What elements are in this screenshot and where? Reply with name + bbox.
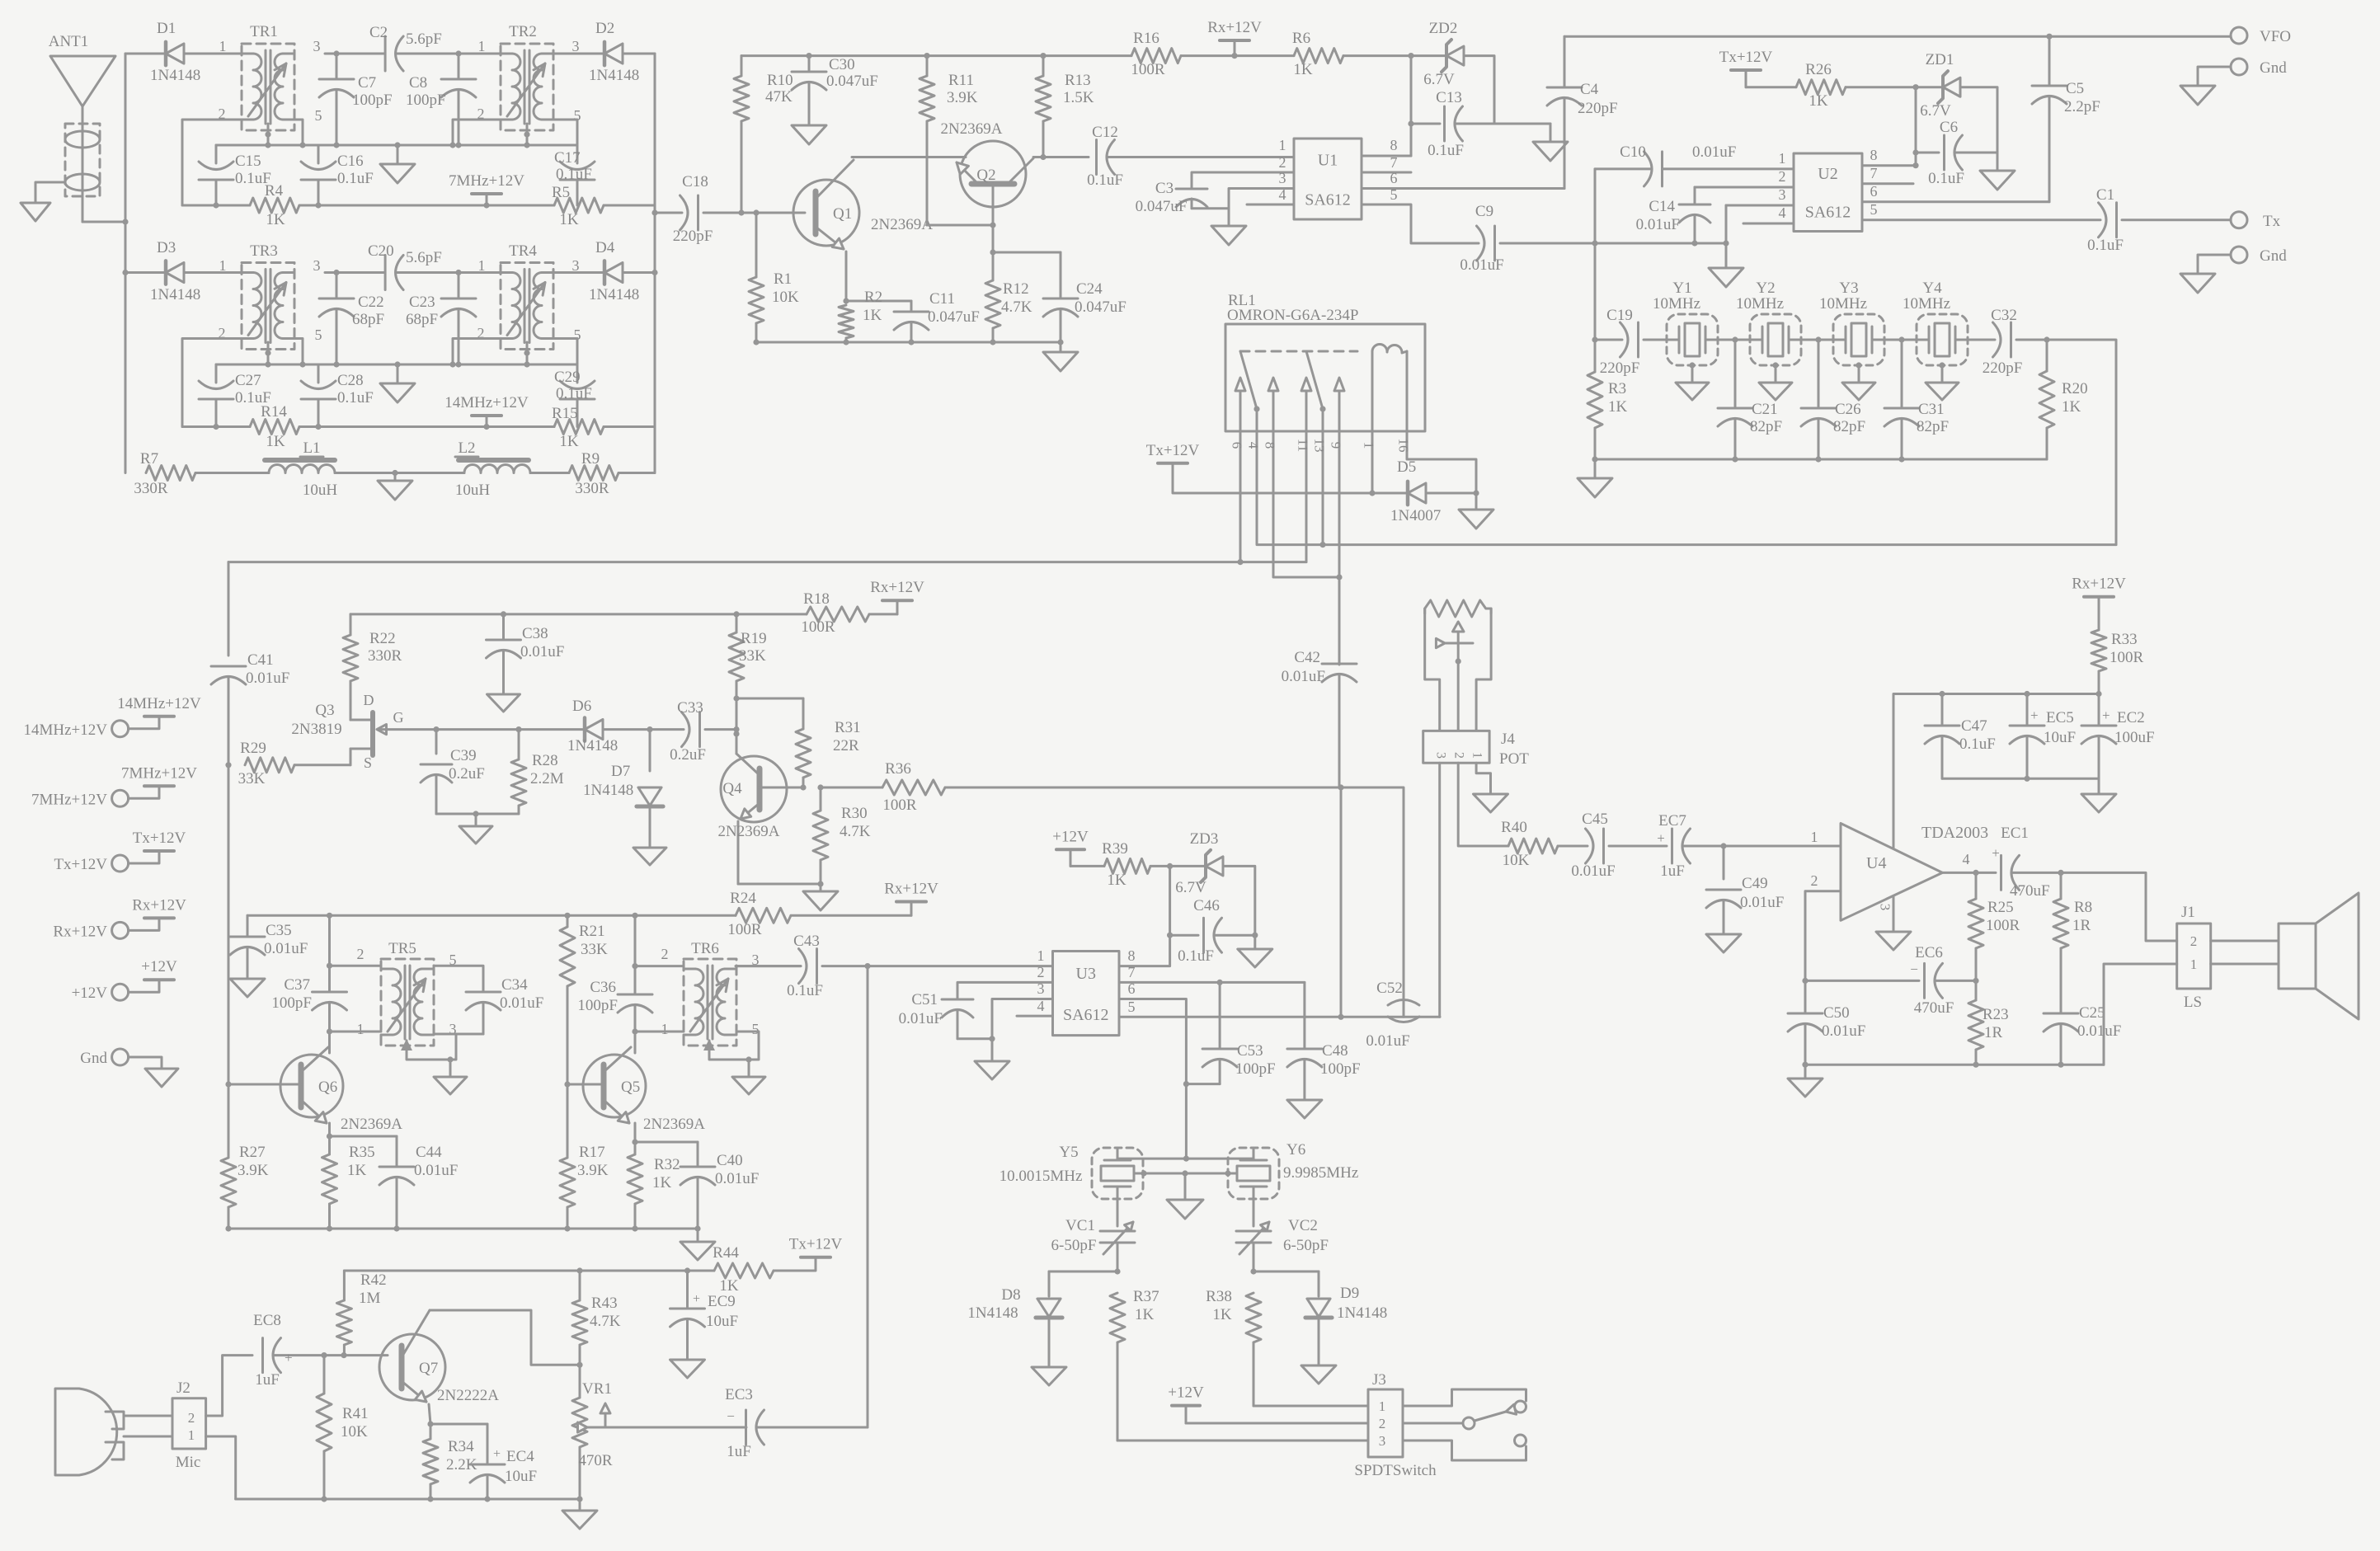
- wire Q3 rail2: [504, 611, 740, 617]
- wire U2 pin1: [1779, 150, 1794, 169]
- capacitor C14: [1636, 187, 1710, 243]
- wire bias rail: [741, 53, 1131, 59]
- ground (C39): [459, 814, 492, 844]
- svg-text:4.7K: 4.7K: [840, 823, 871, 840]
- svg-text:1uF: 1uF: [727, 1443, 751, 1460]
- wire J3 pin3 out: [1403, 1441, 1519, 1460]
- ground (filter2): [380, 364, 415, 402]
- svg-text:1N4148: 1N4148: [583, 782, 633, 799]
- svg-text:R20: R20: [2062, 380, 2088, 397]
- wire U3 pin4: [1017, 998, 1053, 1016]
- svg-text:R31: R31: [835, 719, 861, 736]
- svg-text:C1: C1: [2096, 186, 2114, 204]
- resistor R4: [182, 182, 318, 228]
- capacitor EC4: [470, 1424, 537, 1499]
- svg-text:C23: C23: [409, 294, 435, 311]
- svg-text:ZD1: ZD1: [1926, 51, 1954, 68]
- opamp U4 (TDA2003): [1811, 824, 1989, 921]
- ground (R3): [1578, 459, 1612, 497]
- svg-text:3.9K: 3.9K: [577, 1162, 609, 1179]
- capacitor C27: [199, 364, 271, 430]
- wire TR2 pin2: [449, 120, 501, 148]
- svg-text:Q7: Q7: [419, 1360, 438, 1377]
- svg-text:1K: 1K: [1135, 1306, 1155, 1323]
- wire U2 pin7: [1862, 165, 1913, 184]
- wire U3 pin6: [1119, 980, 1189, 1162]
- svg-text:R26: R26: [1805, 61, 1832, 78]
- wire D1 to TR1: [184, 53, 252, 55]
- coax to ANT1: [65, 124, 100, 196]
- wire R9 to bus2: [619, 472, 655, 474]
- svg-text:R43: R43: [591, 1295, 618, 1312]
- svg-text:R18: R18: [803, 590, 830, 608]
- ground (C48): [1287, 1100, 1322, 1118]
- zener ZD3: [1175, 830, 1223, 896]
- svg-text:6.7V: 6.7V: [1423, 71, 1455, 88]
- svg-text:D2: D2: [595, 20, 614, 37]
- svg-text:S: S: [364, 754, 372, 771]
- transistor Q6: [280, 1047, 402, 1133]
- capacitor C20: [325, 242, 459, 290]
- svg-text:U1: U1: [1318, 151, 1338, 169]
- svg-text:R9: R9: [581, 450, 600, 468]
- wire filter2 botrail: [318, 425, 554, 428]
- svg-text:OMRON-G6A-234P: OMRON-G6A-234P: [1227, 307, 1358, 324]
- svg-text:Q1: Q1: [833, 205, 852, 223]
- wire TR5 pin5: [434, 966, 483, 992]
- svg-text:1: 1: [1279, 137, 1286, 153]
- capacitor EC2: [2081, 694, 2155, 779]
- svg-text:1: 1: [219, 257, 227, 274]
- svg-text:R23: R23: [1983, 1006, 2009, 1023]
- resistor R23: [1968, 980, 2009, 1067]
- svg-text:220pF: 220pF: [1578, 100, 1618, 117]
- svg-text:Rx+12V: Rx+12V: [1207, 19, 1262, 36]
- wire J4 pin1 gnd: [1476, 763, 1490, 794]
- diode D5: [1372, 458, 1479, 524]
- wire U3 pin3: [992, 980, 1053, 1061]
- svg-text:3.9K: 3.9K: [238, 1162, 269, 1179]
- svg-text:2N3819: 2N3819: [291, 721, 341, 738]
- resistor R6: [1292, 30, 1343, 78]
- capacitor C37: [271, 966, 346, 1034]
- capacitor EC7: [1657, 812, 1724, 880]
- wire U4 out: [1942, 870, 1996, 876]
- svg-text:R5: R5: [552, 184, 570, 201]
- svg-text:0.1uF: 0.1uF: [1959, 736, 1996, 753]
- svg-text:1K: 1K: [1293, 61, 1313, 78]
- svg-text:8: 8: [1870, 147, 1878, 163]
- resistor R13: [1036, 56, 1094, 157]
- svg-text:J1: J1: [2181, 904, 2195, 921]
- svg-text:0.1uF: 0.1uF: [1428, 142, 1464, 159]
- wire audio botrail: [236, 1496, 583, 1502]
- svg-text:0.01uF: 0.01uF: [899, 1010, 943, 1027]
- terminal 7MHz+12V: [31, 764, 197, 808]
- svg-text:2.2pF: 2.2pF: [2064, 98, 2100, 115]
- terminal +12V: [72, 958, 177, 1002]
- wire R5 right: [604, 204, 655, 207]
- svg-text:1N4148: 1N4148: [150, 67, 200, 84]
- svg-text:0.01uF: 0.01uF: [715, 1170, 759, 1187]
- svg-text:D: D: [364, 692, 374, 708]
- svg-text:C43: C43: [793, 933, 820, 950]
- svg-text:R7: R7: [140, 450, 158, 468]
- resistor R29: [238, 740, 350, 787]
- svg-text:9: 9: [1329, 442, 1344, 449]
- resistor R34: [423, 1424, 477, 1499]
- antenna ANT1: [49, 33, 115, 222]
- svg-text:100pF: 100pF: [1235, 1060, 1276, 1078]
- svg-text:+: +: [1657, 830, 1665, 846]
- wire J4 pin3: [1438, 763, 1441, 1017]
- capacitor C24: [993, 252, 1127, 345]
- wire RL1 pin8: [1263, 391, 1343, 580]
- power +12V (J3): [1168, 1384, 1368, 1423]
- svg-text:100R: 100R: [727, 921, 762, 938]
- svg-text:100pF: 100pF: [352, 92, 393, 109]
- svg-text:TR4: TR4: [509, 242, 537, 260]
- capacitor C43: [736, 933, 1052, 999]
- svg-text:C37: C37: [284, 976, 310, 994]
- svg-text:Tx+12V: Tx+12V: [1146, 442, 1200, 459]
- svg-text:1K: 1K: [1107, 872, 1127, 889]
- ground (C13): [1533, 124, 1568, 161]
- capacitor C52: [1366, 980, 1419, 1050]
- svg-text:33K: 33K: [581, 941, 608, 958]
- wire R19 to R31: [733, 698, 803, 737]
- svg-text:+: +: [2102, 707, 2110, 723]
- svg-text:D4: D4: [595, 239, 615, 256]
- svg-text:100pF: 100pF: [271, 994, 312, 1012]
- svg-text:2N2369A: 2N2369A: [718, 823, 780, 840]
- svg-text:6: 6: [1390, 170, 1398, 186]
- svg-text:C29: C29: [554, 369, 581, 386]
- svg-text:1: 1: [1037, 947, 1045, 964]
- svg-text:0.1uF: 0.1uF: [1928, 170, 1964, 187]
- capacitor C11: [894, 290, 980, 342]
- svg-text:2N2369A: 2N2369A: [871, 216, 933, 233]
- svg-text:1K: 1K: [2062, 398, 2081, 416]
- svg-text:3: 3: [1037, 980, 1045, 997]
- wire U4 pin2: [1802, 891, 1841, 984]
- svg-text:0.1uF: 0.1uF: [337, 389, 374, 407]
- capacitor C2: [325, 24, 459, 71]
- capacitor EC8: [253, 1312, 346, 1389]
- svg-text:0.01uF: 0.01uF: [500, 994, 543, 1012]
- terminal Rx+12V: [53, 896, 186, 940]
- svg-text:R10: R10: [767, 72, 793, 89]
- svg-text:5: 5: [1390, 186, 1398, 203]
- wire filter in: [1592, 243, 1597, 343]
- capacitor C5: [2032, 36, 2100, 202]
- wire C6 node: [1912, 87, 1918, 169]
- resistor R31: [796, 698, 861, 791]
- svg-text:Gnd: Gnd: [2260, 59, 2287, 77]
- wire filter2 midrail: [216, 361, 577, 367]
- svg-text:0.01uF: 0.01uF: [1460, 256, 1503, 274]
- potentiometer (volume): [1425, 600, 1491, 731]
- svg-text:D5: D5: [1397, 458, 1416, 476]
- resistor R37: [1110, 1288, 1159, 1441]
- svg-text:1.5K: 1.5K: [1063, 89, 1094, 106]
- ground (Y3): [1842, 362, 1875, 400]
- svg-text:D7: D7: [611, 763, 630, 780]
- svg-text:1K: 1K: [652, 1174, 672, 1191]
- wire Y5 drop: [1117, 1159, 1119, 1160]
- ground (LC): [378, 473, 412, 501]
- wire Tx audio rail: [344, 1267, 714, 1273]
- svg-text:2: 2: [1279, 154, 1286, 171]
- svg-text:VFO: VFO: [2260, 28, 2291, 45]
- svg-text:SA612: SA612: [1805, 203, 1851, 221]
- transistor Q3 (2N3819): [291, 692, 436, 771]
- capacitor C51: [899, 991, 995, 1041]
- crystal Y3: [1819, 280, 1884, 365]
- svg-text:1: 1: [1470, 752, 1484, 759]
- svg-text:TDA2003: TDA2003: [1921, 824, 1988, 842]
- wire TR5 pin1: [330, 1031, 382, 1033]
- IC U1: [1294, 139, 1362, 219]
- wire TR2 ctap: [524, 124, 529, 148]
- svg-text:1K: 1K: [719, 1277, 739, 1295]
- svg-text:C34: C34: [501, 976, 528, 994]
- svg-text:4: 4: [1246, 442, 1262, 449]
- svg-text:1K: 1K: [1212, 1306, 1232, 1323]
- resistor R25: [1968, 872, 2020, 984]
- wire Q2 base node: [990, 225, 995, 256]
- svg-text:1K: 1K: [863, 307, 882, 324]
- ground (C14): [1709, 205, 1743, 287]
- svg-text:VR1: VR1: [582, 1380, 612, 1398]
- svg-text:D8: D8: [1001, 1286, 1020, 1304]
- svg-text:4: 4: [1963, 851, 1970, 867]
- svg-text:C27: C27: [235, 372, 261, 389]
- svg-text:0.01uF: 0.01uF: [1692, 143, 1736, 161]
- svg-text:J4: J4: [1501, 731, 1515, 748]
- svg-text:C40: C40: [717, 1152, 743, 1169]
- svg-text:1: 1: [1811, 829, 1818, 845]
- wire TR4 pin2: [449, 339, 501, 368]
- capacitor C25: [2044, 1004, 2121, 1068]
- resistor R16: [1131, 30, 1181, 78]
- svg-text:3: 3: [1379, 1433, 1386, 1449]
- svg-text:1K: 1K: [559, 211, 579, 228]
- capacitor C38: [487, 614, 565, 694]
- transformer TR6: [661, 940, 760, 1046]
- resistor R43: [572, 1271, 621, 1365]
- svg-text:Q3: Q3: [315, 702, 334, 719]
- wire TR5 pin3: [401, 1034, 483, 1063]
- svg-text:1N4148: 1N4148: [150, 286, 200, 303]
- svg-text:2: 2: [1811, 872, 1818, 889]
- capacitor EC1: [1992, 825, 2063, 900]
- capacitor C47: [1925, 694, 1996, 779]
- svg-text:C24: C24: [1076, 280, 1103, 298]
- svg-text:1R: 1R: [2072, 917, 2091, 934]
- svg-text:C39: C39: [450, 747, 477, 764]
- capacitor C33: [670, 699, 740, 764]
- svg-text:C30: C30: [829, 56, 855, 73]
- svg-text:2: 2: [1037, 964, 1045, 980]
- transistor Q1: [793, 160, 933, 249]
- svg-text:EC2: EC2: [2117, 709, 2145, 726]
- svg-text:1: 1: [357, 1021, 365, 1037]
- svg-text:R40: R40: [1501, 819, 1527, 836]
- svg-text:2N2369A: 2N2369A: [341, 1116, 402, 1133]
- svg-text:EC3: EC3: [725, 1386, 753, 1403]
- svg-text:C21: C21: [1752, 401, 1778, 418]
- svg-text:10MHz: 10MHz: [1903, 295, 1950, 313]
- svg-text:R30: R30: [841, 805, 868, 822]
- wire Rx bias: [1235, 54, 1294, 57]
- svg-text:5.6pF: 5.6pF: [406, 249, 442, 266]
- svg-text:R8: R8: [2074, 899, 2092, 916]
- svg-text:33K: 33K: [238, 770, 266, 787]
- IC U2: [1794, 153, 1862, 232]
- svg-text:D1: D1: [157, 20, 176, 37]
- resistor R1: [749, 213, 799, 342]
- svg-text:+: +: [285, 1350, 293, 1365]
- wire Q5 base: [564, 1081, 604, 1087]
- capacitor C28: [301, 364, 374, 430]
- resistor R2: [839, 289, 882, 342]
- svg-text:Rx+12V: Rx+12V: [53, 923, 107, 940]
- wire filter botrail: [1592, 456, 2047, 462]
- svg-text:0.01uF: 0.01uF: [1282, 668, 1325, 685]
- svg-text:0.01uF: 0.01uF: [414, 1162, 458, 1179]
- svg-text:C51: C51: [911, 991, 938, 1008]
- svg-text:1: 1: [1779, 150, 1786, 167]
- svg-text:TR3: TR3: [250, 242, 278, 260]
- diode D7: [583, 730, 663, 806]
- wire R26 to ZD1: [1846, 84, 1941, 90]
- svg-text:Y6: Y6: [1286, 1141, 1305, 1159]
- wire coax shield: [35, 182, 65, 203]
- resistor R17: [560, 1095, 609, 1229]
- wire filter out: [2047, 340, 2116, 545]
- ground (bypass): [2081, 778, 2116, 812]
- ground (coax): [21, 203, 50, 221]
- capacitor C13: [1411, 89, 1550, 159]
- svg-text:TR6: TR6: [691, 940, 719, 957]
- wire U2 pin4: [1743, 204, 1794, 223]
- svg-text:3: 3: [1279, 170, 1286, 186]
- resistor R30: [813, 784, 871, 886]
- svg-text:4: 4: [1279, 186, 1286, 203]
- capacitor C9: [1460, 203, 1597, 274]
- wire U2 pin6: [1862, 183, 2049, 202]
- wire R16 to Rx12: [1181, 53, 1238, 59]
- svg-text:Tx+12V: Tx+12V: [54, 856, 107, 873]
- wire C10 col: [1594, 169, 1597, 243]
- svg-text:3.9K: 3.9K: [947, 89, 978, 106]
- svg-text:Y2: Y2: [1756, 280, 1775, 297]
- wire TR1 pin2: [182, 120, 242, 205]
- svg-text:1K: 1K: [559, 433, 579, 450]
- svg-text:3: 3: [1878, 904, 1893, 911]
- svg-text:C16: C16: [337, 153, 364, 170]
- svg-text:100pF: 100pF: [1320, 1060, 1361, 1078]
- wire D4 anode: [553, 271, 603, 274]
- svg-text:Tx+12V: Tx+12V: [789, 1236, 843, 1253]
- svg-text:220pF: 220pF: [673, 228, 713, 245]
- wire Q6 base: [228, 1083, 301, 1086]
- svg-text:0.1uF: 0.1uF: [2087, 237, 2124, 254]
- wire Y1-Y2: [1718, 336, 1753, 342]
- loudspeaker: [2279, 893, 2359, 1019]
- svg-text:R19: R19: [741, 630, 767, 647]
- wire D2 anode: [553, 53, 603, 55]
- wire Q7 collector: [430, 1310, 583, 1368]
- wire IF node: [1595, 240, 1726, 246]
- svg-text:C44: C44: [416, 1144, 442, 1161]
- transistor Q7: [379, 1310, 499, 1424]
- svg-text:1: 1: [2190, 956, 2198, 972]
- svg-text:C5: C5: [2066, 80, 2084, 97]
- ground (D8): [1032, 1318, 1066, 1385]
- svg-text:0.01uF: 0.01uF: [1571, 862, 1615, 880]
- svg-text:L2: L2: [458, 439, 475, 457]
- resistor R41: [317, 1356, 369, 1499]
- svg-text:1: 1: [188, 1427, 195, 1443]
- svg-text:5: 5: [1128, 999, 1136, 1015]
- svg-text:C20: C20: [368, 242, 394, 260]
- svg-text:7MHz+12V: 7MHz+12V: [121, 764, 197, 782]
- wire U4 Vcc rail: [1893, 691, 2099, 848]
- diode D2: [589, 20, 639, 84]
- wire R38 to J3: [1253, 1405, 1368, 1408]
- svg-text:R4: R4: [265, 182, 284, 200]
- capacitor C8: [406, 50, 476, 145]
- svg-text:C22: C22: [358, 294, 384, 311]
- svg-text:2.2M: 2.2M: [530, 770, 564, 787]
- svg-text:C25: C25: [2079, 1004, 2105, 1022]
- svg-text:10MHz: 10MHz: [1736, 295, 1784, 313]
- svg-text:R15: R15: [552, 405, 578, 422]
- wire RL1 pin1: [1362, 351, 1377, 496]
- ground (C6): [1980, 153, 2015, 190]
- svg-text:C32: C32: [1991, 307, 2017, 324]
- svg-text:+: +: [2030, 707, 2039, 723]
- capacitor C23: [406, 270, 476, 364]
- svg-text:10uH: 10uH: [303, 482, 338, 499]
- resistor R21: [560, 915, 608, 1095]
- svg-text:R33: R33: [2111, 631, 2138, 648]
- wire TR6 pin3 out: [736, 965, 801, 967]
- svg-text:C7: C7: [358, 74, 376, 92]
- svg-text:R22: R22: [369, 630, 396, 647]
- svg-text:14MHz+12V: 14MHz+12V: [444, 394, 529, 411]
- svg-text:68pF: 68pF: [352, 311, 384, 328]
- ground (C30): [792, 125, 826, 144]
- capacitor C29: [554, 364, 595, 427]
- svg-text:220pF: 220pF: [1983, 360, 2023, 377]
- svg-text:0.01uF: 0.01uF: [2077, 1022, 2121, 1040]
- resistor R24: [727, 890, 911, 938]
- wire U3 pin2: [957, 964, 1053, 999]
- svg-text:5.6pF: 5.6pF: [406, 31, 442, 48]
- svg-text:6-50pF: 6-50pF: [1051, 1237, 1097, 1254]
- crystal Y4: [1903, 280, 1968, 365]
- resistor R9: [569, 450, 619, 497]
- svg-text:C38: C38: [522, 625, 548, 642]
- svg-text:0.01uF: 0.01uF: [246, 670, 289, 687]
- svg-text:C12: C12: [1092, 124, 1118, 141]
- wire R11 to Q2b: [927, 222, 996, 228]
- inductor L1: [265, 439, 337, 499]
- power Rx+12V (R18): [870, 579, 924, 614]
